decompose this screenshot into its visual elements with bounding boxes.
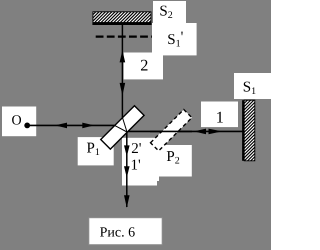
svg-text:2': 2' (131, 141, 142, 157)
svg-text:Рис. 6: Рис. 6 (100, 225, 136, 240)
svg-text:2: 2 (140, 56, 148, 75)
svg-text:O: O (12, 114, 22, 129)
svg-text:1': 1' (131, 158, 142, 174)
svg-text:1: 1 (216, 107, 224, 126)
